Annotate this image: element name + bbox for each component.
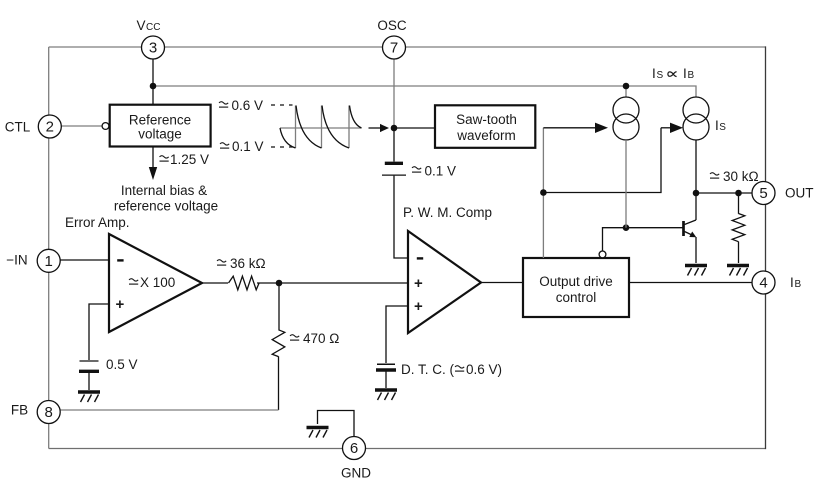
svg-text:Error Amp.: Error Amp.	[65, 215, 130, 230]
wire osc node to sawtooth box	[394, 127, 435, 129]
svg-text:2: 2	[46, 119, 54, 136]
svg-text:D. T. C. (: D. T. C. (	[401, 362, 455, 377]
svg-text:470 Ω: 470 Ω	[303, 331, 339, 346]
wire pin3 to refbox	[152, 59, 154, 105]
svg-text:+: +	[414, 275, 423, 292]
svg-text:−IN: −IN	[6, 253, 27, 268]
wire error amp plus input	[89, 304, 109, 360]
svg-text:30 kΩ: 30 kΩ	[723, 169, 759, 184]
svg-text:Reference: Reference	[129, 113, 191, 128]
box reference voltage	[110, 105, 211, 147]
wire 470 top	[278, 283, 280, 330]
wire 30k top	[738, 193, 740, 214]
svg-text:I: I	[652, 66, 656, 81]
svg-text:control: control	[556, 290, 597, 305]
node base junction	[623, 224, 630, 231]
box output drive control	[523, 258, 629, 317]
op-amp error amp	[109, 234, 202, 332]
wire 470 bottom to FB	[278, 356, 280, 410]
capacitor DTC	[377, 363, 395, 365]
label 30k	[710, 173, 719, 178]
wire FB line	[60, 409, 279, 411]
svg-text:I: I	[790, 275, 794, 290]
border frame bottom	[49, 448, 766, 450]
label 0.6V	[219, 102, 228, 107]
pin 5	[752, 182, 775, 205]
svg-text:P. W. M. Comp: P. W. M. Comp	[403, 205, 492, 220]
svg-text:I: I	[715, 118, 719, 133]
border frame right	[765, 46, 767, 449]
op-amp PWM comparator	[408, 231, 481, 333]
svg-text:FB: FB	[11, 403, 28, 418]
wire pin2 to refbox	[62, 125, 102, 127]
node inverter bubble at refbox	[102, 123, 109, 130]
node ctrl junction	[540, 189, 547, 196]
svg-text:GND: GND	[341, 466, 371, 481]
arrow into CS1	[543, 127, 596, 129]
svg-text:reference voltage: reference voltage	[114, 199, 218, 214]
node CS1 top junction	[623, 83, 630, 90]
svg-text:0.1 V: 0.1 V	[232, 139, 264, 154]
svg-text:4: 4	[759, 275, 767, 292]
current source CS1	[613, 97, 639, 123]
pin 3	[142, 36, 165, 59]
svg-text:I: I	[683, 66, 687, 81]
node 36k-470 junction	[276, 280, 283, 287]
svg-text:S: S	[719, 122, 726, 133]
svg-text:0.6 V): 0.6 V)	[466, 362, 502, 377]
wire error amp output to PWM	[202, 282, 228, 284]
wire pwm output	[481, 282, 523, 284]
wire out net	[696, 192, 752, 194]
svg-text:3: 3	[149, 40, 157, 57]
arrow into CS2	[661, 127, 671, 129]
arrow into osc node	[369, 127, 381, 129]
resistor R 30k	[732, 214, 745, 242]
wire pwm dtc input	[386, 306, 408, 363]
current source CS2	[683, 97, 709, 123]
pin 8	[37, 401, 60, 424]
wire pin1 to error amp	[60, 259, 109, 261]
pin label minus error amp	[117, 259, 123, 261]
wire gnd bracket	[318, 411, 355, 437]
svg-text:CC: CC	[146, 22, 160, 33]
node bubble on box top	[599, 251, 606, 258]
waveform midline	[280, 127, 362, 129]
svg-text:OUT: OUT	[785, 186, 814, 201]
wire output drive to pin4	[629, 282, 752, 284]
pin 6	[343, 437, 366, 460]
svg-text:6: 6	[350, 440, 358, 457]
resistor R 36k	[229, 276, 260, 290]
node 30k junction	[735, 190, 742, 197]
svg-text:1: 1	[45, 253, 53, 270]
ground under DTC	[375, 390, 397, 400]
ground under transistor	[685, 266, 707, 276]
svg-text:Internal bias &: Internal bias &	[121, 183, 207, 198]
svg-text:8: 8	[45, 404, 53, 421]
wire ctrl to CS2	[543, 128, 661, 193]
wire cap to pwm minus input	[394, 176, 408, 258]
node osc junction	[391, 125, 398, 132]
border frame left	[48, 47, 50, 449]
label 0.1V	[220, 143, 229, 148]
svg-text:S: S	[657, 70, 664, 81]
arrow internal bias	[152, 147, 154, 169]
ground near pin6	[307, 428, 329, 438]
svg-text:0.1 V: 0.1 V	[425, 164, 457, 179]
svg-text:B: B	[795, 279, 802, 290]
svg-text:CTL: CTL	[5, 120, 31, 135]
svg-text:B: B	[688, 70, 695, 81]
transistor Q1	[682, 221, 685, 236]
wire pin7 down to osc node	[393, 59, 395, 129]
label 1.25V	[160, 156, 169, 161]
waveform risers	[295, 106, 297, 149]
label X100	[129, 279, 138, 284]
wire 30k bottom	[738, 242, 740, 263]
svg-text:+: +	[414, 298, 423, 315]
label 36k	[217, 260, 226, 265]
border frame top	[49, 46, 766, 48]
wire sawtooth ctrl vertical	[542, 128, 544, 258]
node out junction	[693, 190, 700, 197]
waveform teeth	[280, 106, 362, 149]
svg-text:7: 7	[390, 40, 398, 57]
pin 1	[37, 249, 60, 272]
wire CS1 top stub	[625, 86, 627, 97]
pin 7	[383, 36, 406, 59]
pin 2	[38, 115, 61, 138]
svg-text:36 kΩ: 36 kΩ	[230, 256, 266, 271]
box saw-tooth waveform	[435, 105, 535, 148]
node vcc-ref junction	[150, 83, 157, 90]
ground under 0.5V cap	[78, 392, 100, 402]
svg-text:X 100: X 100	[140, 275, 175, 290]
svg-text:5: 5	[759, 185, 767, 202]
pin 4	[752, 271, 775, 294]
ground under 30k	[727, 266, 749, 276]
wire vcc rail y86	[153, 86, 696, 97]
pin label minus PWM	[417, 257, 423, 259]
wire CS2 bottom to collector	[695, 140, 697, 220]
svg-text:Output drive: Output drive	[539, 274, 613, 289]
resistor R 470	[272, 330, 285, 357]
svg-text:V: V	[137, 18, 146, 33]
svg-text:0.6 V: 0.6 V	[232, 98, 264, 113]
wire bubble to base line	[603, 228, 683, 251]
label 470	[290, 335, 299, 340]
svg-text:+: +	[116, 296, 125, 313]
capacitor 0.1V	[385, 162, 403, 165]
wire CS1 bottom	[625, 140, 627, 228]
wire emitter down	[695, 237, 697, 263]
capacitor 0.5V	[80, 360, 99, 362]
wire osc node down to cap	[393, 128, 395, 162]
svg-text:waveform: waveform	[456, 128, 516, 143]
svg-text:voltage: voltage	[138, 127, 182, 142]
svg-text:1.25 V: 1.25 V	[170, 152, 209, 167]
svg-text:Saw-tooth: Saw-tooth	[456, 112, 517, 127]
svg-text:OSC: OSC	[377, 18, 407, 33]
svg-text:0.5 V: 0.5 V	[106, 357, 138, 372]
